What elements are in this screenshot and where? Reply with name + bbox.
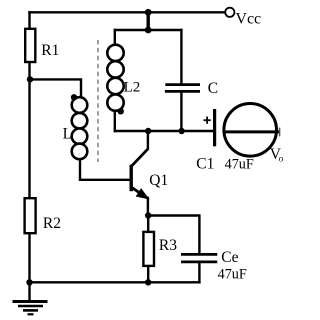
svg-text:Vcc: Vcc (235, 10, 261, 27)
svg-text:R1: R1 (41, 42, 59, 59)
svg-text:R3: R3 (159, 237, 177, 254)
svg-text:47uF: 47uF (218, 267, 247, 283)
svg-text:C1: C1 (196, 155, 214, 172)
svg-text:R2: R2 (43, 215, 61, 232)
svg-text:C: C (208, 80, 218, 97)
svg-text:o: o (279, 154, 284, 164)
svg-text:L2: L2 (124, 79, 141, 95)
svg-text:Ce: Ce (221, 249, 238, 266)
svg-text:47uF: 47uF (225, 157, 254, 173)
svg-text:Q1: Q1 (149, 172, 168, 189)
